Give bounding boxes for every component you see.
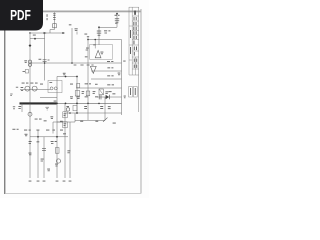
PDF badge bbox=[0, 0, 43, 31]
power bus (thick) bbox=[20, 102, 57, 104]
enclosure box around output stage bbox=[48, 80, 62, 92]
diode D8 bbox=[106, 95, 109, 99]
wire: left vertical branch bbox=[29, 33, 31, 103]
wire: drop 4 bbox=[64, 137, 66, 178]
labels above Q1 Q2 bbox=[22, 83, 43, 85]
junction node C bbox=[76, 76, 78, 78]
labels row mid-left bbox=[12, 129, 63, 131]
resistor R19 bbox=[29, 141, 32, 144]
wire: drop right bbox=[104, 97, 106, 120]
capacitor bank marks bbox=[66, 105, 110, 110]
wire: mid vertical bbox=[76, 77, 78, 114]
junction diamond bbox=[29, 44, 32, 47]
label C15 bbox=[54, 100, 57, 103]
varistor box with cross bbox=[99, 89, 103, 95]
junction node A bbox=[34, 38, 36, 40]
label near J1 bbox=[23, 70, 26, 73]
electrolytic C10 bbox=[66, 108, 69, 111]
wire: op-amp column bbox=[87, 36, 89, 120]
arrow mark at feed start bbox=[44, 32, 47, 34]
junction node G bbox=[37, 136, 39, 138]
label R17 bbox=[25, 134, 28, 136]
capacitor C13 bbox=[42, 149, 46, 151]
wire: right rail bbox=[121, 40, 123, 116]
resistor R21 box bbox=[55, 148, 59, 154]
label 1/2 U1 bbox=[85, 48, 89, 58]
label R18 bbox=[29, 153, 32, 156]
wire: row 3 bbox=[91, 78, 122, 80]
title block text bbox=[130, 11, 137, 68]
tick right of rail bbox=[123, 60, 125, 63]
wire: lower bus bbox=[66, 112, 122, 114]
junction dots on lower bus bbox=[69, 112, 71, 114]
label C1 bbox=[115, 15, 120, 24]
wire: riser to long bus bbox=[71, 28, 73, 63]
junction at column top bbox=[87, 39, 89, 41]
label inside enclosure bbox=[49, 81, 52, 84]
ground symbol marks bbox=[45, 107, 49, 110]
op-amp housing box bbox=[90, 45, 113, 60]
label above riser bbox=[69, 23, 72, 26]
fuse F1 body bbox=[53, 24, 57, 28]
wire: cross link bbox=[57, 76, 77, 78]
electrolytic C12 bbox=[28, 112, 32, 116]
label under bus bbox=[74, 64, 94, 67]
row of labels above lower bus bbox=[70, 96, 98, 99]
labels right of cluster bbox=[82, 91, 109, 94]
capacitor C11 bbox=[107, 84, 114, 92]
svg-text:PDF: PDF bbox=[10, 8, 31, 24]
dense component cluster mid board bbox=[70, 83, 98, 84]
label TP2 bbox=[118, 73, 121, 76]
transistor Q3 label bbox=[55, 164, 58, 167]
junction node F bbox=[87, 103, 89, 105]
sheet border frame (decorative) bbox=[5, 7, 141, 194]
left frame tick labels bbox=[10, 94, 12, 96]
label left of core bbox=[24, 60, 27, 63]
wire: long mid bus bbox=[30, 62, 122, 64]
resistor R26 bbox=[107, 74, 113, 77]
capacitor C2 on branch bbox=[43, 60, 47, 62]
relay contacts inside enclosure bbox=[50, 87, 57, 90]
wire: top horizontal feed bbox=[29, 32, 65, 34]
component on drop5 bbox=[63, 133, 70, 153]
label D8 bbox=[112, 92, 115, 95]
tick at top of column bbox=[84, 34, 89, 38]
op-amp U1A bbox=[95, 50, 101, 57]
wire: drop 2 bbox=[37, 130, 39, 178]
junction node D bbox=[98, 26, 100, 28]
diode D5 label bbox=[75, 28, 78, 34]
wire: right cap drop bbox=[116, 13, 118, 28]
resistor R25 bbox=[107, 61, 113, 68]
wire: row 2 bbox=[91, 70, 122, 72]
label C9 bbox=[63, 73, 66, 75]
title block bbox=[129, 7, 139, 75]
marks under thick bus left bbox=[13, 106, 47, 121]
resistor R31 box bbox=[63, 122, 67, 128]
wire: link to left column bbox=[57, 121, 75, 123]
connector block J1 bbox=[25, 70, 28, 73]
capacitor C16 on row bbox=[99, 95, 101, 100]
fuse F1 stub bbox=[54, 12, 56, 29]
wire: second vertical branch bbox=[44, 33, 46, 81]
wire: drop 5 bbox=[69, 122, 71, 178]
diode D8 bar bbox=[108, 95, 110, 99]
label R24 bbox=[104, 30, 110, 33]
revision stamp boxes bbox=[129, 87, 138, 98]
label under bus bbox=[50, 116, 53, 119]
transistor Q3 circle bbox=[56, 159, 60, 163]
power bus continuation bbox=[57, 102, 122, 104]
resistor R34 box bbox=[86, 91, 90, 96]
relay contact box bbox=[77, 83, 80, 87]
wire: base link bbox=[20, 89, 50, 91]
label left of Q3 bbox=[47, 169, 50, 172]
label AC input bbox=[46, 14, 49, 20]
bottom terminal labels bbox=[29, 180, 72, 183]
wire: resistor chain drop bbox=[64, 104, 66, 137]
label inside R30 bbox=[64, 113, 67, 126]
resistor R33 box bbox=[75, 91, 80, 96]
wire: drop 1 bbox=[29, 103, 31, 178]
labels bottom of right block bbox=[60, 121, 116, 124]
diode D6 bbox=[97, 31, 101, 35]
wire: stub bbox=[74, 113, 76, 122]
wire: row link lower bbox=[75, 119, 105, 121]
junction above C1 bbox=[116, 13, 118, 15]
wire: fuse link bbox=[50, 30, 55, 34]
wire: upper right header bbox=[99, 26, 117, 28]
test point mark bbox=[124, 96, 126, 99]
junction on bus at x57 bbox=[56, 103, 58, 105]
wire: left drop from header bbox=[98, 27, 100, 45]
label above feed bbox=[31, 28, 37, 31]
inductor core on left branch bbox=[28, 60, 31, 66]
wire: row 4 left extension bbox=[76, 87, 84, 89]
junction node H bbox=[56, 136, 58, 138]
transistor Q2 bbox=[32, 86, 37, 91]
capacitor C14 bbox=[51, 141, 57, 144]
op-amp U1A lead bbox=[94, 40, 96, 49]
wire: left drop bbox=[21, 103, 23, 112]
junction node B bbox=[29, 32, 30, 33]
label left tick bbox=[16, 87, 23, 91]
wire: row 4 bbox=[84, 87, 122, 89]
wire: drop 3 bbox=[43, 137, 45, 178]
wire: sub feed bbox=[30, 38, 45, 40]
junction node E bbox=[76, 112, 78, 114]
wire: aux drop bbox=[53, 122, 63, 134]
resistor R30 box bbox=[63, 112, 67, 118]
wire: lower distribution bus bbox=[30, 136, 68, 138]
label on drop2 bbox=[37, 140, 40, 143]
transistor Q1 bbox=[25, 86, 30, 91]
diode D7 bbox=[41, 159, 44, 162]
wire: sub link bbox=[40, 97, 57, 99]
wire: second header bbox=[88, 39, 122, 41]
arrow terminal on feed bbox=[62, 32, 64, 34]
transistor Q4 arrow bbox=[103, 118, 108, 122]
label F1 bbox=[53, 13, 56, 20]
label above box bbox=[93, 43, 96, 46]
op-amp U1B bbox=[90, 66, 96, 73]
wire: main left vertical bbox=[56, 77, 58, 179]
label IC1 inside box bbox=[100, 52, 103, 55]
wire: row 5 bbox=[97, 96, 122, 98]
label C2 bbox=[39, 59, 50, 61]
capacitor C1 polarized bbox=[115, 19, 119, 23]
